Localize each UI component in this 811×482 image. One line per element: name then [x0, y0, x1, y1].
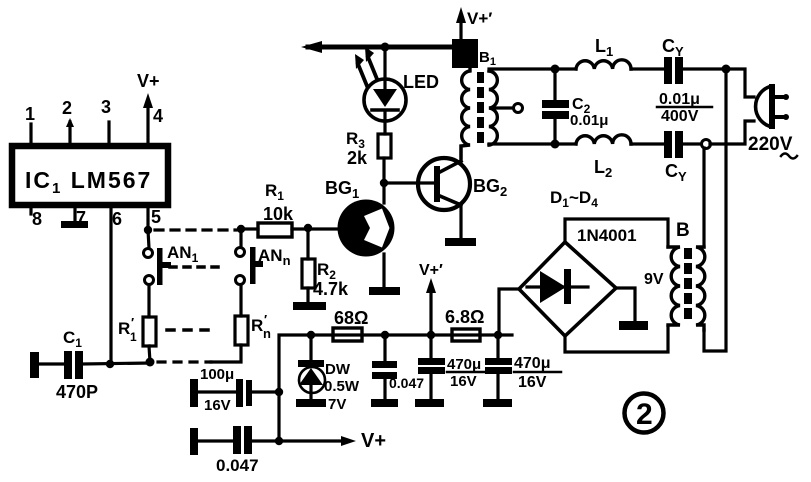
transistor BG1: [325, 178, 395, 257]
op-amp U1: IC1 LM567 tone decoder box: [12, 146, 168, 205]
ground below 470u first: [415, 399, 444, 407]
ground below DW: [296, 399, 326, 407]
node 100u junction: [275, 388, 283, 396]
svg-text:V+: V+: [361, 430, 386, 452]
node B1 center tap terminal: [493, 104, 523, 113]
wire dashed bottom R'1 to R'n: [158, 360, 211, 363]
transformer B1 primary winding: [461, 68, 470, 158]
svg-text:16V: 16V: [518, 374, 547, 391]
svg-text:10k: 10k: [263, 204, 294, 224]
svg-text:8: 8: [32, 209, 42, 229]
svg-text:0.047: 0.047: [389, 375, 424, 391]
wire dashed AN1 to ANn: [170, 265, 222, 269]
svg-text:5: 5: [151, 207, 161, 227]
node C2 bottom junction: [551, 140, 560, 149]
wire dashed R'1 to R'n: [167, 328, 216, 332]
switch AN1: [144, 230, 199, 285]
transformer B core: [684, 248, 692, 319]
svg-text:LED: LED: [403, 72, 439, 92]
node pin5 junction: [144, 226, 152, 234]
svg-text:′: ′: [264, 312, 267, 327]
capacitor CY lower: [664, 131, 701, 184]
transformer B1 core: [477, 72, 484, 143]
svg-text:V+′: V+′: [467, 9, 492, 28]
pin 4 with V+ supply arrow: [137, 71, 163, 146]
wire B1 secondary top: [489, 69, 556, 71]
wire thick V+' top rail with left arrow: [301, 41, 473, 53]
node bridge riser junction: [494, 331, 502, 339]
svg-text:D1~D4: D1~D4: [550, 188, 598, 210]
label 220V: [748, 134, 797, 159]
transistor BG2: [418, 158, 507, 210]
resistor 6.8ohm: [445, 307, 484, 341]
node 0.047 top junction: [381, 331, 389, 339]
wire left riser (lower rail to B primary top): [702, 148, 705, 247]
node CY/plug junction: [722, 65, 731, 74]
svg-text:2: 2: [636, 398, 653, 431]
svg-text:16V: 16V: [450, 373, 477, 390]
svg-text:′: ′: [131, 315, 134, 330]
pin 5: [148, 205, 161, 232]
svg-text:400V: 400V: [661, 108, 699, 125]
node 0.047 bottom junction: [275, 437, 283, 445]
wire bridge right output to ground: [616, 288, 635, 322]
switch ANn: [236, 233, 291, 285]
wire lower rail to plug: [710, 121, 754, 144]
svg-text:0.01μ: 0.01μ: [659, 91, 700, 108]
pin 7 with ground: [75, 205, 86, 228]
capacitor C1 470P: [30, 328, 150, 402]
pin 2: [62, 98, 74, 146]
svg-text:220V: 220V: [748, 134, 793, 155]
node C2 top junction: [551, 65, 560, 74]
label 0.01u/400V: [657, 91, 712, 125]
svg-text:n: n: [263, 326, 271, 341]
transformer B1 secondary winding: [489, 71, 497, 145]
wire B1 secondary bottom: [489, 144, 556, 145]
wire upper rail to plug: [726, 69, 754, 97]
svg-text:R: R: [118, 319, 130, 338]
capacitor 470u/16V first: [418, 335, 488, 399]
svg-text:6: 6: [112, 209, 122, 229]
svg-text:2k: 2k: [347, 148, 368, 168]
ground below 470u second: [483, 399, 512, 407]
ground below 0.047 mid: [371, 399, 398, 407]
supply arrow V+' at B1: [456, 7, 492, 44]
diode inside bridge: [527, 269, 588, 304]
wire BG1 emitter: [382, 254, 385, 287]
svg-text:1: 1: [25, 104, 35, 124]
wire right riser (top rail to B primary bottom): [704, 69, 726, 351]
svg-text:3: 3: [101, 97, 111, 117]
wire bottom rail: [279, 335, 512, 441]
svg-text:6.8Ω: 6.8Ω: [445, 307, 484, 327]
capacitor 0.047 bottom: [190, 426, 279, 475]
wire bridge left output to rail: [499, 289, 519, 333]
svg-text:0.5W: 0.5W: [324, 378, 360, 395]
svg-text:100μ: 100μ: [200, 366, 234, 383]
resistor R2 4.7k: [302, 228, 349, 302]
node V+' junction: [427, 331, 435, 339]
node DW top junction: [307, 331, 315, 339]
svg-text:9V: 9V: [644, 271, 664, 288]
node LED top junction: [381, 43, 390, 52]
resistor R'n: [211, 286, 271, 362]
wire bridge top to B secondary top: [565, 219, 668, 247]
node lower-rail terminal circle: [702, 140, 711, 149]
svg-text:0.01μ: 0.01μ: [570, 112, 608, 129]
svg-text:4: 4: [153, 106, 163, 126]
pin 3: [101, 97, 111, 146]
resistor R3 2k: [346, 129, 391, 183]
capacitor 0.047 mid: [372, 335, 424, 399]
resistor R1 10k: [245, 181, 340, 237]
bridge rectifier diamond D1-D4: [519, 226, 637, 336]
resistor R'1: [118, 285, 156, 362]
svg-text:2: 2: [62, 98, 72, 118]
capacitor C2 0.01u: [542, 69, 608, 144]
LED D-LED: [355, 47, 439, 134]
svg-text:V+: V+: [137, 71, 160, 91]
capacitor 470u/16V second: [485, 335, 561, 399]
supply arrow V+' mid: [419, 262, 443, 335]
svg-text:1: 1: [130, 330, 137, 344]
node R'1 bottom junction: [146, 358, 155, 367]
ground at pin 7: [61, 221, 88, 228]
svg-text:470P: 470P: [56, 382, 98, 402]
capacitor CY upper: [662, 36, 726, 84]
figure number 2: [625, 394, 664, 433]
wire dashed pin5 to ANn: [155, 228, 236, 231]
svg-text:68Ω: 68Ω: [334, 308, 368, 328]
ground below BG2: [445, 238, 476, 246]
pin 6: [111, 205, 122, 364]
ground below R2: [293, 302, 326, 310]
ground below BG1 emitter: [369, 287, 400, 295]
svg-text:16V: 16V: [204, 397, 231, 414]
transformer B primary winding: [696, 247, 705, 330]
wire BG1 collector: [382, 182, 385, 203]
ground at bridge output: [619, 321, 648, 330]
mains plug: [756, 84, 789, 129]
svg-text:7V: 7V: [328, 396, 346, 413]
supply arrow V+ bottom: [279, 430, 386, 452]
svg-text:0.047: 0.047: [216, 456, 259, 475]
svg-text:V+′: V+′: [419, 262, 443, 279]
node ANn top junction: [237, 225, 245, 233]
pin 8: [31, 205, 42, 229]
svg-text:IC1 LM567: IC1 LM567: [25, 167, 152, 197]
wire BG2 emitter: [459, 204, 462, 238]
wire base BG2: [384, 181, 434, 184]
wire bridge bottom to B secondary bottom: [565, 327, 668, 352]
pin 1: [25, 104, 35, 146]
wire BG2 collector: [459, 146, 462, 162]
svg-text:470μ: 470μ: [447, 356, 481, 373]
inductor L1: [559, 36, 663, 69]
resistor 68ohm: [333, 308, 368, 341]
svg-text:B: B: [676, 220, 690, 241]
node C1/pin6 junction: [106, 360, 114, 368]
svg-text:DW: DW: [325, 361, 351, 378]
transformer B1 primary-top blob: [452, 39, 496, 68]
capacitor 100u/16V: [190, 366, 279, 414]
svg-text:470μ: 470μ: [514, 355, 550, 372]
transformer B secondary winding 9V: [668, 247, 680, 325]
svg-text:1N4001: 1N4001: [577, 226, 637, 245]
node R2/base junction: [304, 224, 312, 232]
zener diode DW 0.5W 7V: [298, 335, 360, 413]
svg-text:R: R: [251, 316, 263, 335]
node R3/BG2 base junction: [380, 179, 388, 187]
inductor L2: [559, 135, 663, 180]
svg-text:4.7k: 4.7k: [313, 279, 349, 299]
